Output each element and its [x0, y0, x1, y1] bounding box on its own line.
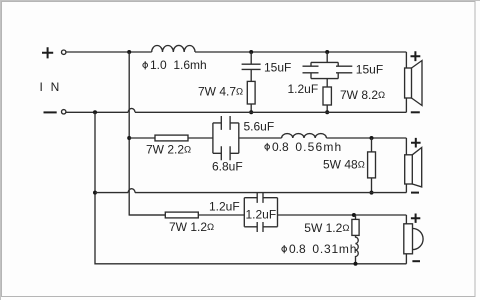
wire R2 bottom stem — [326, 105, 328, 112]
capacitor C4 5.6uF parallel C5 6.8uF — [213, 116, 239, 160]
svg-text:7W 1.2Ω: 7W 1.2Ω — [169, 220, 214, 234]
wire low rail a (from V2 corner) — [129, 214, 165, 216]
svg-text:15uF: 15uF — [356, 62, 383, 76]
node C1 top — [249, 50, 253, 54]
resistor R5 7W 1.2 — [165, 212, 198, 218]
wire minus rail right — [135, 111, 406, 113]
label L2 value — [265, 140, 342, 154]
wire R4 bottom stem — [371, 178, 373, 193]
wire C1-R1 — [250, 69, 252, 81]
resistor R1 7W 4.7 — [247, 81, 255, 104]
wire vertical bus V1 and bottom rail — [95, 112, 406, 263]
junction L3 / bottom rail — [354, 262, 358, 266]
junction V2 / mid rail — [127, 136, 131, 140]
wire mid minus rail right — [135, 192, 406, 194]
svg-text:0.8 0.31mh: 0.8 0.31mh — [289, 242, 357, 256]
inductor L1 1.6mh — [152, 45, 195, 52]
wire hop over V2 lower — [128, 189, 135, 193]
wire minus rail left — [66, 111, 128, 113]
capacitor C2 15uF parallel C3 1.2uF — [303, 62, 353, 78]
resistor R4 5W 48 — [368, 152, 376, 178]
node C2 top — [325, 50, 329, 54]
label L1 value — [143, 58, 207, 72]
speaker LS2 cone — [412, 148, 421, 187]
svg-text:5W 48Ω: 5W 48Ω — [323, 157, 365, 171]
wire R1 bottom stem — [250, 104, 252, 112]
wire R4 top stem — [371, 138, 373, 152]
wire C2-R2 — [326, 79, 328, 87]
svg-text:1.2uF: 1.2uF — [209, 200, 240, 214]
junction R6 top — [352, 213, 356, 217]
wire mid rail a — [129, 137, 155, 139]
wire speaker2 top stub — [405, 138, 407, 155]
junction R2 / minus rail — [325, 110, 329, 114]
speaker LS1 cone — [412, 61, 423, 106]
speaker LS3 plus — [411, 214, 420, 223]
resistor R6 5W 1.2 — [352, 219, 359, 235]
wire mid rail b — [188, 137, 213, 139]
junction top rail / V2 — [127, 50, 131, 54]
junction R1 / minus rail — [249, 110, 253, 114]
junction R4 top — [370, 136, 374, 140]
capacitor C1 15uF — [242, 64, 261, 69]
speaker LS1 minus — [411, 111, 420, 113]
speaker LS3 dome — [413, 228, 424, 249]
inductor L2 0.56mh — [282, 134, 327, 138]
resistor R2 7W 8.2 — [323, 87, 331, 105]
speaker LS2 minus — [411, 192, 419, 194]
svg-text:7W 4.7Ω: 7W 4.7Ω — [198, 85, 243, 99]
speaker LS1 frame — [405, 68, 412, 98]
junction R4 / mid minus rail — [370, 191, 374, 195]
wire mid rail c — [239, 137, 282, 139]
wire C2 stem top — [326, 52, 328, 62]
wire vertical bus V2 — [129, 52, 165, 215]
inductor L3 0.31mh — [356, 235, 359, 263]
terminal + — [62, 50, 66, 54]
speaker LS2 frame — [405, 155, 413, 184]
wire C1 stem — [250, 52, 252, 64]
wire + rail left — [66, 51, 152, 53]
resistor R3 7W 2.2 — [155, 135, 188, 141]
wire R6 top stem — [355, 215, 357, 219]
svg-text:15uF: 15uF — [264, 61, 291, 75]
svg-text:6.8uF: 6.8uF — [212, 160, 243, 174]
speaker LS3 minus — [412, 260, 420, 262]
speaker LS1 plus — [411, 51, 421, 61]
svg-text:5.6uF: 5.6uF — [244, 120, 275, 134]
wire + rail right — [195, 51, 406, 53]
svg-text:1.2uF: 1.2uF — [288, 82, 319, 96]
svg-text:1.2uF: 1.2uF — [246, 207, 277, 221]
svg-text:5W 1.2Ω: 5W 1.2Ω — [304, 221, 349, 235]
svg-text:7W 8.2Ω: 7W 8.2Ω — [340, 88, 385, 102]
svg-text:1.0 1.6mh: 1.0 1.6mh — [150, 58, 207, 72]
junction minus rail / V1 — [93, 110, 97, 114]
wire speaker1 bottom stub — [405, 98, 407, 112]
wire speaker1 top stub — [405, 52, 407, 68]
input minus symbol — [44, 111, 57, 113]
wire low rail c — [278, 214, 407, 216]
wire mid minus rail left — [95, 192, 128, 194]
svg-text:7W 2.2Ω: 7W 2.2Ω — [146, 142, 191, 156]
speaker LS3 frame — [404, 224, 413, 254]
terminal - — [62, 110, 66, 114]
wire speaker2 bottom stub — [405, 184, 407, 193]
speaker LS2 plus — [411, 138, 421, 148]
capacitor C6 1.2uF parallel C7 1.2uF — [244, 193, 277, 232]
label L3 value — [282, 242, 357, 256]
wire hop over V2 — [128, 108, 135, 112]
svg-text:I N: I N — [40, 80, 62, 94]
wire speaker3 top stub — [405, 215, 407, 224]
svg-text:0.8 0.56mh: 0.8 0.56mh — [272, 140, 342, 154]
input plus symbol — [42, 47, 53, 58]
wire speaker3 bottom stub — [405, 254, 407, 264]
wire low rail b — [198, 214, 244, 216]
junction V1 / mid minus rail — [93, 191, 97, 195]
wire mid rail d — [326, 137, 406, 139]
